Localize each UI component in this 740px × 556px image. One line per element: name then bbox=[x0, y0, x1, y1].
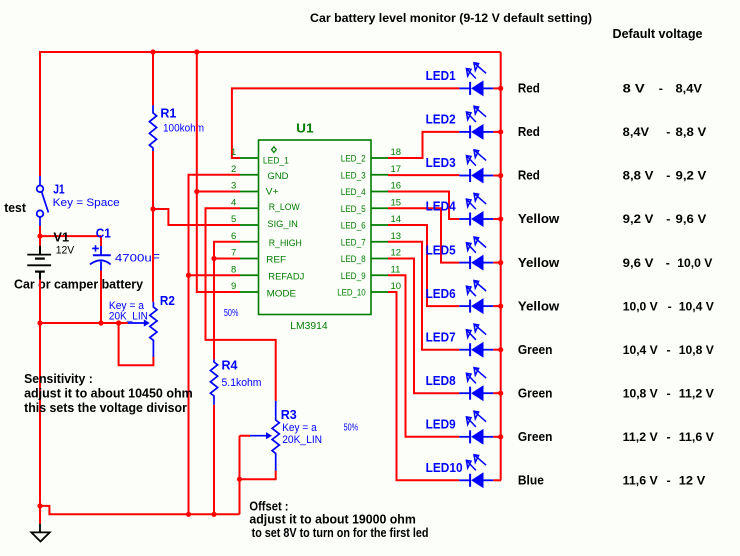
svg-text:14: 14 bbox=[391, 214, 402, 225]
svg-text:this sets the voltage divisor: this sets the voltage divisor bbox=[24, 400, 187, 415]
svg-text:3: 3 bbox=[231, 181, 236, 192]
svg-text:LED7: LED7 bbox=[426, 329, 456, 344]
wire left rail upper (battery+ to top rail) bbox=[39, 51, 41, 176]
svg-text:to set 8V to turn on for the f: to set 8V to turn on for the first led bbox=[252, 525, 429, 540]
junction battery+/C1 bbox=[37, 234, 42, 239]
LED8 bbox=[459, 368, 501, 402]
pin 14 stub bbox=[371, 224, 388, 226]
op-amp/IC U1 body bbox=[259, 140, 372, 315]
svg-text:2: 2 bbox=[231, 164, 236, 175]
svg-text:REFADJ: REFADJ bbox=[268, 271, 304, 281]
wire pin6 R_HIGH line to R4 bbox=[214, 242, 240, 360]
junction anode rail / LED8 bbox=[498, 391, 503, 396]
wire pin8 REFADJ stub bbox=[189, 274, 241, 276]
svg-text:8: 8 bbox=[231, 264, 236, 275]
wire R4 bottom to bottom rail bbox=[213, 405, 215, 515]
potentiometer R2 bbox=[150, 302, 157, 357]
wire top rail to R1 bbox=[152, 52, 154, 105]
wire R1 to R2 (divider node) bbox=[152, 151, 154, 302]
LED3 bbox=[459, 150, 501, 184]
wire R3 bottom bbox=[240, 471, 276, 480]
pin 13 stub bbox=[371, 241, 388, 243]
wire R3 wiper loop bbox=[240, 436, 251, 480]
svg-text:-: - bbox=[667, 343, 671, 357]
junction GND line / pin8 bbox=[186, 273, 191, 278]
pin 1 polarity diamond bbox=[272, 147, 277, 153]
svg-text:Green: Green bbox=[518, 342, 553, 357]
wire pin14 to LED6 bbox=[388, 225, 459, 306]
svg-text:Car battery level monitor (9-1: Car battery level monitor (9-12 V defaul… bbox=[310, 11, 592, 25]
wire pin11 to LED9 bbox=[388, 275, 459, 437]
svg-text:MODE: MODE bbox=[267, 289, 297, 299]
svg-text:-: - bbox=[668, 299, 672, 313]
svg-text:Red: Red bbox=[518, 124, 540, 139]
svg-text:Key = a: Key = a bbox=[282, 422, 317, 434]
svg-text:R3: R3 bbox=[281, 407, 297, 422]
junction anode rail / LED5 bbox=[498, 260, 503, 265]
potentiometer R3 wiper arrow bbox=[250, 435, 267, 437]
svg-text:15: 15 bbox=[391, 197, 402, 208]
junction anode rail / LED7 bbox=[498, 347, 503, 352]
pin 7 stub bbox=[240, 258, 259, 260]
battery V1 bbox=[27, 246, 51, 280]
junction ground row / R2 loop bbox=[116, 320, 121, 325]
junction top rail / V+ line bbox=[194, 49, 199, 54]
switch J1 bbox=[37, 176, 49, 226]
svg-text:SIG_IN: SIG_IN bbox=[267, 219, 298, 229]
svg-text:50%: 50% bbox=[224, 308, 239, 319]
wire pin17 to LED3 bbox=[388, 174, 459, 176]
svg-text:12: 12 bbox=[391, 248, 402, 259]
svg-text:9,2 V: 9,2 V bbox=[676, 169, 708, 183]
svg-text:7: 7 bbox=[231, 248, 236, 259]
svg-text:LED8: LED8 bbox=[426, 373, 456, 388]
svg-text:8,4V: 8,4V bbox=[676, 82, 703, 96]
junction anode rail / LED6 bbox=[498, 304, 503, 309]
svg-text:8,8 V: 8,8 V bbox=[623, 169, 655, 183]
svg-text:4: 4 bbox=[231, 197, 236, 208]
LED5 bbox=[459, 237, 501, 271]
svg-text:C1: C1 bbox=[96, 226, 111, 241]
svg-text:-: - bbox=[666, 212, 670, 226]
svg-text:Red: Red bbox=[518, 168, 540, 183]
pin 15 stub bbox=[371, 207, 388, 209]
svg-text:LED_7: LED_7 bbox=[341, 237, 366, 247]
LED2 bbox=[459, 106, 501, 140]
wire bottom rail bbox=[40, 506, 240, 514]
svg-text:17: 17 bbox=[391, 164, 402, 175]
svg-text:LED6: LED6 bbox=[426, 286, 456, 301]
ground bbox=[31, 524, 49, 542]
svg-text:U1: U1 bbox=[296, 120, 313, 135]
wire pin16 to LED4 bbox=[388, 192, 459, 220]
junction R_HIGH line / pin7 REF bbox=[211, 256, 216, 261]
svg-text:J1: J1 bbox=[53, 181, 64, 196]
wire pin10 to LED10 bbox=[388, 292, 459, 480]
svg-text:Green: Green bbox=[518, 385, 553, 400]
svg-text:V1: V1 bbox=[53, 230, 69, 244]
pin 16 stub bbox=[371, 191, 388, 193]
svg-text:13: 13 bbox=[391, 231, 402, 242]
junction anode rail / LED2 bbox=[498, 129, 503, 134]
resistor R1 bbox=[149, 105, 156, 151]
svg-text:LED2: LED2 bbox=[426, 112, 456, 127]
wire C1 bottom to ground row bbox=[100, 271, 102, 323]
wire V+/MODE rail bbox=[197, 52, 240, 292]
svg-text:20K_LIN: 20K_LIN bbox=[109, 310, 148, 322]
wire pin2 GND line bbox=[189, 175, 241, 515]
svg-text:9,2 V: 9,2 V bbox=[623, 212, 655, 226]
junction R4 / bottom rail bbox=[211, 512, 216, 517]
pin 3 stub bbox=[240, 191, 259, 193]
wire pin7 REF stub bbox=[214, 258, 240, 260]
svg-text:20K_LIN: 20K_LIN bbox=[282, 434, 322, 446]
LED6 bbox=[459, 281, 501, 315]
svg-text:Default voltage: Default voltage bbox=[613, 26, 703, 41]
junction ground row / battery- bbox=[37, 320, 42, 325]
svg-text:LED9: LED9 bbox=[426, 417, 456, 432]
svg-text:LED3: LED3 bbox=[426, 155, 456, 170]
wire C1 top lead bbox=[100, 236, 102, 246]
wire divider to pin5 SIG_IN bbox=[153, 209, 240, 225]
potentiometer R2 wiper arrow bbox=[128, 322, 145, 324]
pin 2 stub bbox=[240, 174, 259, 176]
LED4 bbox=[459, 193, 501, 227]
svg-text:LED_3: LED_3 bbox=[341, 170, 366, 180]
svg-text:adjust it to about 10450 ohm: adjust it to about 10450 ohm bbox=[24, 386, 193, 401]
wire R2 loop down bbox=[119, 323, 154, 365]
junction divider node (R1/R2/SIG_IN) bbox=[150, 206, 155, 211]
wire pin3 V+ stub bbox=[197, 191, 240, 193]
svg-text:-: - bbox=[666, 169, 670, 183]
pin 11 stub bbox=[371, 274, 388, 276]
junction top rail / R1 bbox=[150, 49, 155, 54]
svg-text:10,4 V: 10,4 V bbox=[623, 343, 659, 357]
svg-text:18: 18 bbox=[391, 147, 402, 158]
wire node to C1 top bbox=[40, 235, 101, 237]
svg-text:LED_2: LED_2 bbox=[341, 154, 366, 164]
svg-text:LED4: LED4 bbox=[426, 199, 457, 214]
junction R3 bottom / wiper bbox=[237, 477, 242, 482]
wire left rail lower bbox=[39, 323, 41, 524]
svg-text:5.1kohm: 5.1kohm bbox=[222, 377, 262, 389]
wire pin4 R_LOW to R3 top bbox=[206, 208, 276, 401]
wire pin1 to LED1 bbox=[232, 88, 459, 158]
pin 4 stub bbox=[240, 207, 259, 209]
pin 5 stub bbox=[240, 224, 259, 226]
wire pin13 to LED7 bbox=[388, 242, 459, 350]
svg-text:R_HIGH: R_HIGH bbox=[269, 238, 302, 248]
svg-text:12 V: 12 V bbox=[679, 474, 706, 488]
svg-text:16: 16 bbox=[391, 181, 402, 192]
svg-text:LED_6: LED_6 bbox=[341, 221, 366, 231]
svg-text:V+: V+ bbox=[266, 187, 279, 197]
junction GND line / bottom rail bbox=[186, 512, 191, 517]
wire pin18 to LED2 bbox=[388, 132, 459, 158]
junction anode rail / LED3 bbox=[498, 173, 503, 178]
junction anode rail / LED1 bbox=[498, 86, 503, 91]
svg-text:LED_8: LED_8 bbox=[341, 254, 366, 264]
svg-text:11: 11 bbox=[391, 264, 401, 275]
svg-text:8 V: 8 V bbox=[623, 82, 646, 96]
pin 1 stub bbox=[240, 157, 259, 159]
svg-text:10,4 V: 10,4 V bbox=[679, 299, 715, 313]
junction left rail / bottom rail bbox=[37, 503, 42, 508]
wire pin12 to LED8 bbox=[388, 259, 459, 394]
svg-text:8,8 V: 8,8 V bbox=[676, 125, 708, 139]
svg-text:Yellow: Yellow bbox=[518, 255, 560, 270]
svg-text:LM3914: LM3914 bbox=[290, 321, 328, 332]
svg-text:12V: 12V bbox=[56, 244, 75, 256]
LED7 bbox=[459, 324, 501, 358]
pin 17 stub bbox=[371, 174, 388, 176]
pin 12 stub bbox=[371, 258, 388, 260]
wire R3 bottom to bottom rail bbox=[239, 479, 241, 514]
svg-text:10: 10 bbox=[391, 281, 402, 292]
capacitor C1 bbox=[90, 245, 111, 270]
LED9 bbox=[459, 411, 501, 445]
pin 18 stub bbox=[371, 157, 388, 159]
svg-text:LED5: LED5 bbox=[426, 242, 456, 257]
svg-text:R_LOW: R_LOW bbox=[269, 202, 300, 212]
svg-text:Yellow: Yellow bbox=[518, 211, 560, 226]
wire pin15 to LED5 bbox=[388, 208, 459, 262]
LED10 bbox=[459, 455, 501, 489]
svg-text:LED_1: LED_1 bbox=[263, 156, 289, 166]
svg-text:1: 1 bbox=[231, 147, 236, 158]
LED1 bbox=[459, 63, 501, 97]
svg-text:-: - bbox=[659, 82, 663, 96]
svg-text:5: 5 bbox=[231, 214, 236, 225]
pin 10 stub bbox=[371, 291, 388, 293]
svg-text:R1: R1 bbox=[160, 105, 176, 120]
junction anode rail / LED9 bbox=[498, 434, 503, 439]
svg-text:10,8 V: 10,8 V bbox=[679, 343, 715, 357]
potentiometer R3 bbox=[272, 401, 279, 471]
svg-text:-: - bbox=[667, 386, 671, 400]
svg-text:R4: R4 bbox=[222, 358, 239, 373]
svg-text:6: 6 bbox=[231, 231, 236, 242]
svg-text:9,6 V: 9,6 V bbox=[623, 256, 655, 270]
wire battery- down bbox=[39, 280, 41, 323]
svg-text:9,6 V: 9,6 V bbox=[676, 212, 708, 226]
svg-text:50%: 50% bbox=[344, 422, 359, 433]
svg-text:LED_4: LED_4 bbox=[341, 187, 366, 197]
svg-text:-: - bbox=[667, 474, 671, 488]
junction V+ line / pin3 bbox=[194, 189, 199, 194]
svg-text:9: 9 bbox=[231, 281, 236, 292]
svg-text:LED_9: LED_9 bbox=[341, 271, 366, 281]
svg-text:test: test bbox=[4, 200, 26, 215]
svg-text:100kohm: 100kohm bbox=[163, 123, 204, 135]
svg-text:10,0 V: 10,0 V bbox=[623, 299, 659, 313]
svg-text:LED1: LED1 bbox=[426, 68, 456, 83]
svg-text:11,6 V: 11,6 V bbox=[623, 474, 659, 488]
svg-text:Red: Red bbox=[518, 81, 540, 96]
svg-text:-: - bbox=[666, 125, 670, 139]
svg-text:LED_10: LED_10 bbox=[337, 288, 366, 298]
svg-text:-: - bbox=[667, 430, 671, 444]
svg-text:8,4V: 8,4V bbox=[623, 125, 650, 139]
wire J1 to battery node bbox=[39, 226, 41, 246]
svg-text:-: - bbox=[666, 256, 670, 270]
svg-text:Blue: Blue bbox=[518, 473, 544, 488]
svg-text:10,8 V: 10,8 V bbox=[623, 386, 659, 400]
resistor R4 bbox=[210, 360, 217, 405]
svg-text:11,2 V: 11,2 V bbox=[679, 386, 715, 400]
wire ground row battery- to R2 wiper bbox=[40, 322, 128, 324]
svg-text:GND: GND bbox=[267, 171, 289, 181]
pin 9 stub bbox=[240, 291, 259, 293]
svg-text:R2: R2 bbox=[160, 293, 175, 308]
svg-text:10,0 V: 10,0 V bbox=[677, 256, 713, 270]
junction ground row / C1 bbox=[98, 320, 103, 325]
pin 8 stub bbox=[240, 274, 259, 276]
svg-text:Green: Green bbox=[518, 429, 553, 444]
svg-text:Key = Space: Key = Space bbox=[53, 197, 120, 209]
wire LED anode rail bbox=[500, 52, 502, 480]
svg-text:Car or camper battery: Car or camper battery bbox=[14, 277, 144, 292]
svg-text:LED10: LED10 bbox=[426, 460, 463, 475]
svg-text:Yellow: Yellow bbox=[518, 298, 560, 313]
svg-text:Sensitivity :: Sensitivity : bbox=[24, 371, 93, 386]
wire top rail +12V bbox=[40, 51, 501, 53]
svg-text:REF: REF bbox=[266, 255, 287, 265]
junction anode rail / LED4 bbox=[498, 216, 503, 221]
pin 6 stub bbox=[240, 241, 259, 243]
svg-text:11,6 V: 11,6 V bbox=[679, 430, 715, 444]
svg-text:11,2 V: 11,2 V bbox=[623, 430, 659, 444]
svg-text:LED_5: LED_5 bbox=[341, 204, 366, 214]
